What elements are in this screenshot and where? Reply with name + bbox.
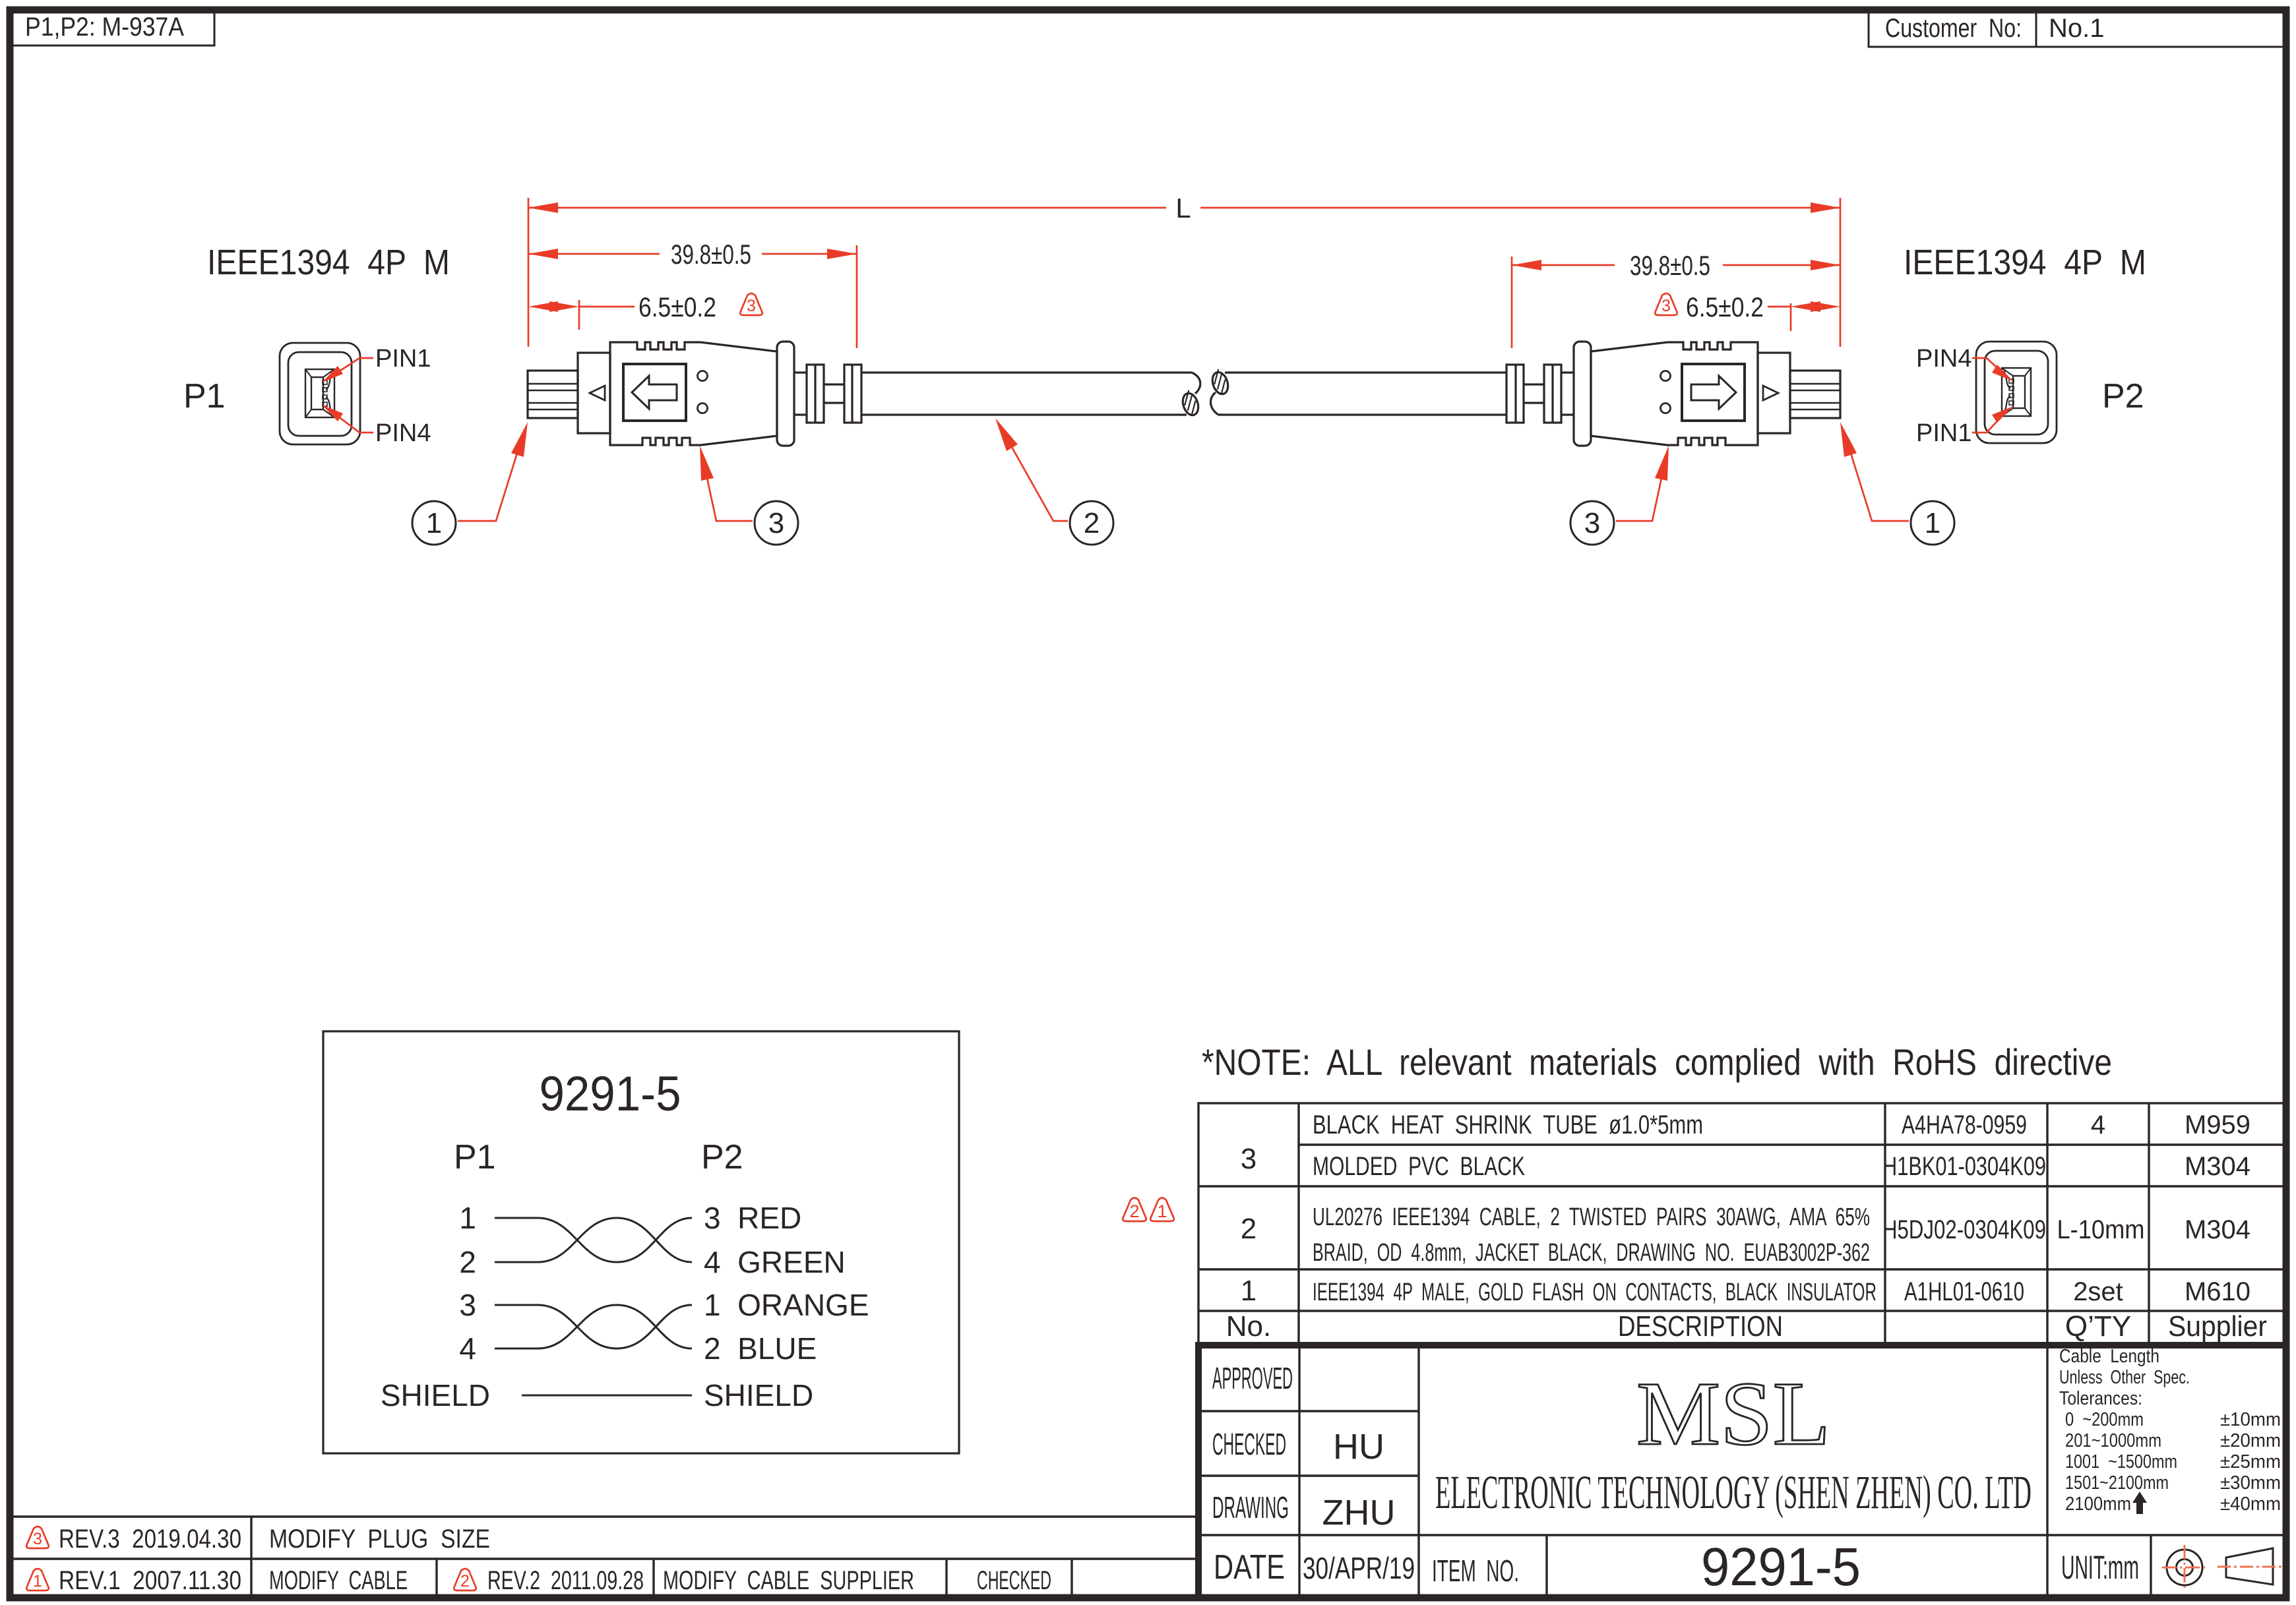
customer no box (1869, 10, 2286, 47)
svg-text:P2: P2 (2102, 377, 2144, 415)
svg-text:H5DJ02-0304K09: H5DJ02-0304K09 (1882, 1215, 2046, 1244)
svg-text:BRAID, OD 4.8mm, JACKET BL: BRAID, OD 4.8mm, JACKET BLACK, DRAWING N… (1313, 1239, 1870, 1267)
svg-text:3: 3 (1661, 297, 1671, 315)
balloon 3 (left molded body) (700, 446, 798, 545)
svg-text:2: 2 (459, 1245, 476, 1279)
cable right segment (1218, 373, 1506, 415)
svg-text:SHIELD: SHIELD (381, 1378, 490, 1412)
svg-text:DRAWING: DRAWING (1212, 1490, 1289, 1525)
svg-text:L: L (1175, 193, 1191, 224)
svg-text:2 BLUE: 2 BLUE (704, 1331, 817, 1366)
svg-text:4: 4 (459, 1331, 476, 1366)
wire shield (522, 1395, 692, 1397)
svg-text:HU: HU (1333, 1427, 1384, 1467)
svg-text:Customer No:: Customer No: (1885, 14, 2022, 43)
svg-text:39.8±0.5: 39.8±0.5 (1630, 250, 1710, 281)
svg-text:3 RED: 3 RED (704, 1201, 801, 1235)
connector plug side view (left) (528, 342, 861, 446)
svg-text:A1HL01-0610: A1HL01-0610 (1904, 1277, 2024, 1306)
svg-text:1: 1 (426, 507, 442, 539)
svg-text:P1,P2: M-937A: P1,P2: M-937A (25, 13, 184, 42)
label PIN4 (P1) (322, 405, 431, 447)
connector P2 front view (1976, 342, 2057, 443)
svg-text:CHECKED: CHECKED (1212, 1427, 1286, 1461)
svg-text:P1: P1 (183, 377, 226, 415)
svg-text:1: 1 (1241, 1275, 1257, 1307)
svg-text:M610: M610 (2185, 1277, 2250, 1306)
BOM row 1: IEEE1394 4P male (1241, 1275, 2250, 1307)
BOM header row (1226, 1310, 2267, 1343)
label PIN1 (P1) (322, 345, 431, 382)
svg-text:DATE: DATE (1214, 1548, 1285, 1587)
svg-text:PIN1: PIN1 (1916, 419, 1971, 447)
svg-text:±10mm: ±10mm (2220, 1409, 2281, 1430)
svg-text:2set: 2set (2073, 1277, 2123, 1306)
projection symbol: cone (2218, 1548, 2282, 1585)
wiring pin numbers P1 side (381, 1201, 490, 1412)
svg-text:1: 1 (33, 1572, 42, 1590)
svg-text:1501~2100mm: 1501~2100mm (2065, 1472, 2169, 1494)
svg-text:L-10mm: L-10mm (2057, 1215, 2145, 1244)
label PIN1 (P2) (1916, 406, 2013, 447)
connector P1 front view (280, 343, 360, 444)
BOM revision triangles 2 and 1 (1123, 1198, 1174, 1222)
svg-text:IEEE1394 4P MALE, GOLD FLA: IEEE1394 4P MALE, GOLD FLASH ON CONTACTS… (1313, 1279, 1877, 1306)
svg-text:±20mm: ±20mm (2220, 1430, 2281, 1451)
svg-text:±30mm: ±30mm (2220, 1472, 2281, 1494)
svg-text:*NOTE: ALL relevant materia: *NOTE: ALL relevant materials complied w… (1202, 1041, 2112, 1083)
revision table grid (10, 1517, 1198, 1598)
title block outer frame (1198, 1345, 2286, 1598)
svg-text:REV.1 2007.11.30: REV.1 2007.11.30 (59, 1566, 241, 1595)
dimension 39.8±0.5 (right) (1512, 250, 1840, 348)
cable left segment (861, 373, 1192, 415)
svg-text:2100mm: 2100mm (2065, 1494, 2131, 1515)
svg-text:Tolerances:: Tolerances: (2059, 1388, 2142, 1409)
wiring diagram box (323, 1031, 959, 1453)
svg-text:9291-5: 9291-5 (1701, 1537, 1861, 1597)
svg-text:2: 2 (460, 1572, 470, 1590)
svg-text:P2: P2 (701, 1138, 743, 1176)
svg-text:1: 1 (1925, 507, 1940, 539)
svg-text:1 ORANGE: 1 ORANGE (704, 1288, 869, 1322)
svg-text:No.1: No.1 (2049, 14, 2105, 43)
balloon 1 (right plug tip) (1840, 422, 1954, 545)
svg-text:M304: M304 (2185, 1152, 2250, 1181)
svg-text:3: 3 (747, 297, 756, 315)
svg-text:REV.3 2019.04.30: REV.3 2019.04.30 (59, 1525, 241, 1554)
svg-text:IEEE1394 4P M: IEEE1394 4P M (1904, 243, 2146, 282)
title block values (1303, 1427, 1415, 1585)
svg-text:3: 3 (1584, 507, 1600, 539)
svg-text:1: 1 (1157, 1201, 1167, 1221)
svg-text:30/APR/19: 30/APR/19 (1303, 1551, 1415, 1585)
svg-text:CHECKED: CHECKED (977, 1566, 1051, 1595)
svg-text:M959: M959 (2185, 1110, 2250, 1139)
svg-text:2: 2 (1129, 1201, 1139, 1221)
connector ref box P1,P2: M-937A (10, 10, 214, 45)
svg-text:No.: No. (1226, 1310, 1271, 1343)
svg-text:Cable Length: Cable Length (2059, 1346, 2159, 1367)
svg-text:DESCRIPTION: DESCRIPTION (1618, 1310, 1783, 1343)
svg-text:Unless Other Spec.: Unless Other Spec. (2059, 1367, 2190, 1388)
balloon 3 (right molded body) (1570, 446, 1669, 545)
BOM row 3b: molded pvc (1313, 1152, 2250, 1181)
svg-text:PIN4: PIN4 (375, 419, 431, 447)
svg-text:MODIFY CABLE: MODIFY CABLE (269, 1566, 408, 1595)
svg-text:UL20276 IEEE1394 CABLE, 2: UL20276 IEEE1394 CABLE, 2 TWISTED PAIRS … (1313, 1203, 1870, 1231)
svg-text:IEEE1394 4P M: IEEE1394 4P M (207, 243, 450, 282)
connector plug side view (right) (1506, 342, 1840, 446)
svg-text:6.5±0.2: 6.5±0.2 (638, 291, 716, 322)
svg-text:ZHU: ZHU (1322, 1493, 1396, 1532)
svg-text:MODIFY PLUG SIZE: MODIFY PLUG SIZE (269, 1525, 490, 1554)
svg-text:4: 4 (2091, 1110, 2105, 1139)
svg-text:0 ~200mm: 0 ~200mm (2065, 1409, 2144, 1430)
balloon 2 (cable) (995, 418, 1113, 545)
svg-text:MSL: MSL (1636, 1363, 1830, 1464)
svg-text:BLACK HEAT SHRINK TUBE ø1.: BLACK HEAT SHRINK TUBE ø1.0*5mm (1313, 1110, 1703, 1139)
cable break symbol (1179, 368, 1231, 417)
tolerance table (2059, 1346, 2281, 1515)
svg-text:1001 ~1500mm: 1001 ~1500mm (2065, 1451, 2177, 1472)
svg-text:ITEM NO.: ITEM NO. (1432, 1554, 1519, 1588)
BOM table grid (1198, 1103, 2286, 1345)
projection symbol: donut (2162, 1545, 2207, 1590)
svg-text:H1BK01-0304K09: H1BK01-0304K09 (1882, 1152, 2046, 1181)
svg-text:APPROVED: APPROVED (1212, 1361, 1293, 1395)
dimension L (528, 193, 1840, 347)
svg-text:Q’TY: Q’TY (2065, 1310, 2131, 1343)
svg-text:ELECTRONIC TECHNOLOGY (SHEN ZH: ELECTRONIC TECHNOLOGY (SHEN ZHEN) CO. LT… (1435, 1466, 2032, 1519)
svg-text:2: 2 (1241, 1213, 1257, 1245)
wire pair 1/2 (RED/GREEN) (495, 1218, 692, 1262)
svg-text:39.8±0.5: 39.8±0.5 (671, 239, 751, 270)
title block grid (1198, 1345, 2286, 1598)
svg-text:Supplier: Supplier (2168, 1310, 2267, 1343)
svg-text:SHIELD: SHIELD (704, 1378, 813, 1412)
svg-text:4 GREEN: 4 GREEN (704, 1245, 846, 1279)
BOM row 3a: heat shrink tube (1241, 1110, 2250, 1175)
svg-text:9291-5: 9291-5 (540, 1066, 681, 1121)
svg-text:3: 3 (33, 1530, 42, 1548)
svg-text:A4HA78-0959: A4HA78-0959 (1902, 1110, 2027, 1139)
svg-text:M304: M304 (2185, 1215, 2250, 1244)
balloon 1 (left plug tip) (412, 422, 528, 545)
svg-text:±40mm: ±40mm (2220, 1494, 2281, 1515)
svg-text:1: 1 (459, 1201, 476, 1235)
svg-text:201~1000mm: 201~1000mm (2065, 1430, 2161, 1451)
BOM row 2: cable (1241, 1203, 2250, 1267)
label PIN4 (P2) (1916, 345, 2013, 381)
svg-text:P1: P1 (454, 1138, 496, 1176)
svg-text:2: 2 (1084, 507, 1100, 539)
svg-text:PIN1: PIN1 (375, 345, 431, 373)
svg-text:3: 3 (459, 1288, 476, 1322)
svg-text:3: 3 (1241, 1143, 1257, 1175)
dimension 39.8±0.5 (left) (528, 239, 857, 348)
svg-text:MODIFY CABLE SUPPLIER: MODIFY CABLE SUPPLIER (663, 1566, 914, 1595)
revision row REV.3 (26, 1525, 490, 1554)
svg-text:PIN4: PIN4 (1916, 345, 1971, 373)
dimension 6.5±0.2 (right) (1655, 291, 1840, 331)
revision row REV.1 / REV.2 (26, 1566, 1051, 1595)
title block labels (1212, 1361, 1293, 1587)
dimension 6.5±0.2 (left) (528, 291, 762, 330)
svg-text:REV.2 2011.09.28: REV.2 2011.09.28 (487, 1566, 644, 1595)
wiring pin labels P2 side (704, 1201, 869, 1412)
wire pair 3/4 (ORANGE/BLUE) (495, 1305, 692, 1348)
svg-text:MOLDED PVC BLACK: MOLDED PVC BLACK (1313, 1152, 1525, 1181)
svg-text:6.5±0.2: 6.5±0.2 (1686, 291, 1764, 322)
svg-text:3: 3 (768, 507, 784, 539)
svg-text:UNIT:mm: UNIT:mm (2061, 1549, 2139, 1586)
svg-text:±25mm: ±25mm (2220, 1451, 2281, 1472)
